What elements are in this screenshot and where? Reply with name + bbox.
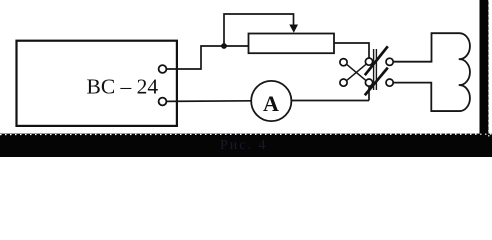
svg-text:А: А	[263, 91, 279, 116]
svg-text:ВС – 24: ВС – 24	[87, 75, 159, 99]
svg-text:Рис. 4: Рис. 4	[220, 138, 268, 153]
